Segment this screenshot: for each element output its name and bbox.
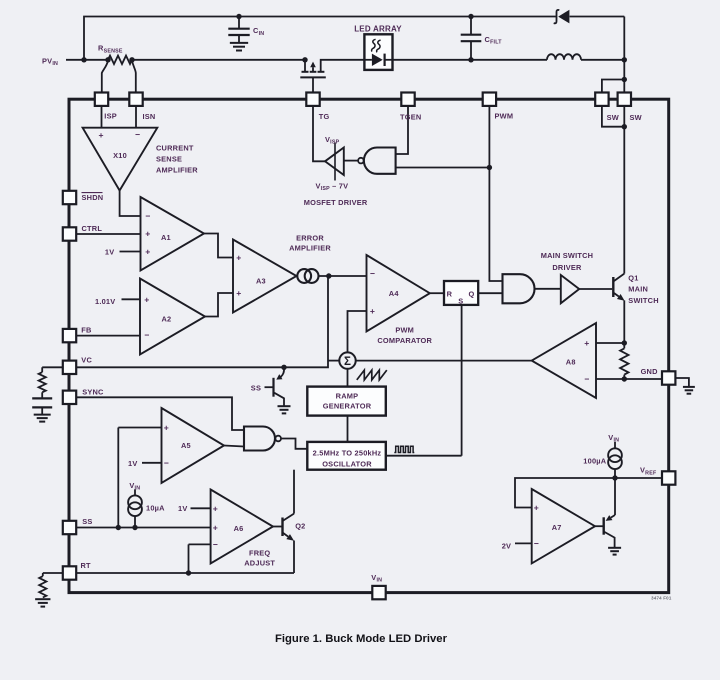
svg-text:−: − <box>164 458 169 468</box>
svg-text:−: − <box>144 330 149 340</box>
svg-text:A8: A8 <box>566 357 576 366</box>
svg-text:A7: A7 <box>552 523 562 532</box>
svg-text:TG: TG <box>319 112 330 121</box>
svg-text:SS: SS <box>82 517 92 526</box>
svg-text:OSCILLATOR: OSCILLATOR <box>322 459 372 468</box>
svg-text:3474 F01: 3474 F01 <box>651 596 672 601</box>
svg-text:1.01V: 1.01V <box>95 297 115 306</box>
svg-text:SW: SW <box>607 113 619 122</box>
svg-text:A1: A1 <box>161 233 171 242</box>
svg-text:FB: FB <box>81 326 91 335</box>
svg-text:ISN: ISN <box>143 112 156 121</box>
svg-text:−: − <box>534 538 539 548</box>
svg-text:+: + <box>144 294 149 304</box>
svg-text:ISP: ISP <box>104 112 117 121</box>
svg-text:SYNC: SYNC <box>82 387 104 396</box>
svg-text:+: + <box>534 503 539 513</box>
svg-text:−: − <box>370 269 375 279</box>
svg-text:PWM: PWM <box>395 326 414 335</box>
svg-text:AMPLIFIER: AMPLIFIER <box>289 244 331 253</box>
svg-text:X10: X10 <box>113 151 127 160</box>
svg-text:+: + <box>370 306 375 316</box>
svg-text:−: − <box>145 211 150 221</box>
svg-text:10µA: 10µA <box>146 503 165 512</box>
svg-text:ERROR: ERROR <box>296 233 324 242</box>
svg-text:CURRENT: CURRENT <box>156 144 194 153</box>
svg-text:A6: A6 <box>234 524 244 533</box>
svg-text:Q2: Q2 <box>295 522 305 531</box>
svg-text:−: − <box>213 539 218 549</box>
svg-text:SWITCH: SWITCH <box>628 296 658 305</box>
svg-text:DRIVER: DRIVER <box>552 263 582 272</box>
svg-text:MAIN: MAIN <box>628 285 648 294</box>
svg-text:GENERATOR: GENERATOR <box>323 402 372 411</box>
svg-text:SS: SS <box>251 384 261 393</box>
svg-text:Σ: Σ <box>344 356 351 368</box>
svg-text:+: + <box>145 247 150 257</box>
svg-text:FREQ: FREQ <box>249 548 270 557</box>
svg-text:2V: 2V <box>502 541 511 550</box>
svg-text:Q1: Q1 <box>628 273 638 282</box>
svg-text:MOSFET DRIVER: MOSFET DRIVER <box>304 198 368 207</box>
svg-text:S: S <box>458 297 463 306</box>
svg-text:100µA: 100µA <box>583 456 606 465</box>
svg-text:2.5MHz TO 250kHz: 2.5MHz TO 250kHz <box>313 448 382 457</box>
svg-text:+: + <box>236 288 241 298</box>
svg-text:MAIN SWITCH: MAIN SWITCH <box>541 251 594 260</box>
svg-text:A5: A5 <box>181 441 191 450</box>
svg-text:+: + <box>164 423 169 433</box>
svg-text:1V: 1V <box>105 248 114 257</box>
svg-text:+: + <box>584 338 589 348</box>
svg-text:Figure 1. Buck Mode LED Driver: Figure 1. Buck Mode LED Driver <box>275 633 448 645</box>
svg-text:ADJUST: ADJUST <box>244 559 275 568</box>
svg-text:A2: A2 <box>162 314 172 323</box>
svg-text:+: + <box>213 523 218 533</box>
svg-text:PWM: PWM <box>495 112 514 121</box>
svg-text:−: − <box>135 130 140 140</box>
svg-text:CTRL: CTRL <box>82 224 103 233</box>
svg-text:+: + <box>98 130 103 140</box>
svg-text:LED ARRAY: LED ARRAY <box>354 24 402 33</box>
svg-text:GND: GND <box>641 367 659 376</box>
svg-text:RAMP: RAMP <box>336 391 359 400</box>
svg-text:1V: 1V <box>128 459 137 468</box>
svg-text:SENSE: SENSE <box>156 155 182 164</box>
svg-text:A4: A4 <box>389 289 400 298</box>
svg-text:+: + <box>213 503 218 513</box>
svg-text:SHDN: SHDN <box>82 193 104 202</box>
svg-text:1V: 1V <box>178 504 187 513</box>
svg-text:+: + <box>236 253 241 263</box>
svg-text:AMPLIFIER: AMPLIFIER <box>156 166 198 175</box>
svg-text:RT: RT <box>81 561 92 570</box>
svg-text:TGEN: TGEN <box>400 112 421 121</box>
svg-text:+: + <box>145 229 150 239</box>
svg-text:COMPARATOR: COMPARATOR <box>377 336 432 345</box>
svg-text:VC: VC <box>81 356 92 365</box>
svg-text:R: R <box>447 289 453 298</box>
svg-text:SW: SW <box>630 113 642 122</box>
svg-text:−: − <box>584 374 589 384</box>
svg-text:A3: A3 <box>256 277 266 286</box>
svg-text:Q: Q <box>469 289 475 298</box>
